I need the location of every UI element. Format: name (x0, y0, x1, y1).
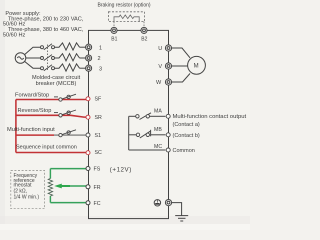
svg-text:(Contact b): (Contact b) (173, 133, 200, 139)
svg-text:MC: MC (154, 144, 162, 150)
svg-text:U: U (158, 46, 162, 52)
svg-text:MA: MA (154, 109, 162, 115)
svg-text:Multi-function contact output: Multi-function contact output (173, 114, 247, 120)
svg-text:M: M (194, 64, 199, 70)
svg-text:Sequence input common: Sequence input common (16, 144, 77, 150)
svg-text:W: W (156, 80, 162, 86)
svg-text:B1: B1 (111, 37, 117, 43)
svg-text:1: 1 (99, 45, 102, 51)
svg-text:Common: Common (173, 148, 195, 154)
svg-text:Multi-function input: Multi-function input (7, 127, 55, 133)
svg-text:FR: FR (94, 185, 101, 191)
svg-text:FC: FC (94, 201, 101, 207)
svg-text:Forward/Stop: Forward/Stop (15, 92, 49, 98)
svg-text:2: 2 (98, 56, 101, 62)
svg-text:50/60 Hz: 50/60 Hz (3, 32, 26, 38)
svg-text:MB: MB (154, 127, 162, 133)
svg-text:(+12V): (+12V) (110, 166, 132, 173)
svg-text:SC: SC (95, 150, 103, 156)
svg-text:Braking resistor (option): Braking resistor (option) (98, 2, 151, 8)
svg-text:S1: S1 (95, 133, 102, 139)
svg-text:SR: SR (95, 115, 103, 121)
svg-text:(Contact a): (Contact a) (173, 122, 200, 128)
svg-text:V: V (158, 64, 162, 70)
svg-text:SF: SF (95, 97, 103, 103)
svg-text:Reverse/Stop: Reverse/Stop (18, 108, 52, 114)
svg-text:Molded-case circuit: Molded-case circuit (32, 75, 81, 81)
svg-text:3: 3 (99, 66, 102, 72)
svg-text:FS: FS (94, 167, 101, 173)
svg-text:1/4 W min.): 1/4 W min.) (14, 195, 40, 201)
svg-text:breaker (MCCB): breaker (MCCB) (36, 81, 77, 87)
svg-text:B2: B2 (141, 37, 147, 43)
